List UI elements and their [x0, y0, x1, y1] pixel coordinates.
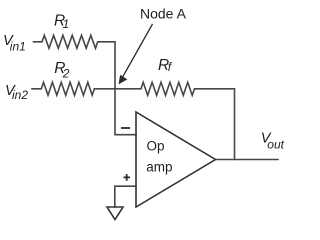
svg-text:amp: amp — [146, 160, 172, 175]
svg-text:1: 1 — [63, 17, 70, 31]
svg-text:Node A: Node A — [140, 6, 187, 22]
svg-text:in2: in2 — [12, 88, 28, 102]
svg-text:Op: Op — [147, 139, 165, 154]
svg-text:2: 2 — [62, 66, 70, 80]
svg-text:out: out — [267, 137, 284, 151]
svg-text:in1: in1 — [10, 40, 26, 54]
